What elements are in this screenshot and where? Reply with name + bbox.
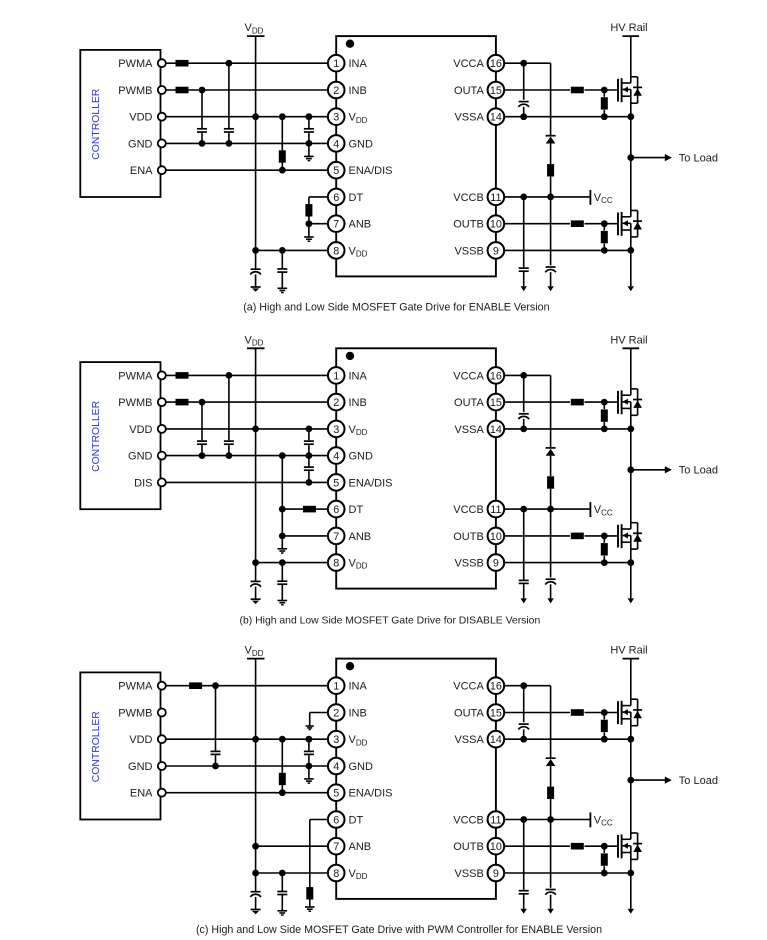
svg-text:11: 11 xyxy=(490,504,501,516)
wire OUTB pin 10 (b) xyxy=(505,533,618,540)
gate-driver IC U1 (a) xyxy=(336,36,496,276)
wire GND to pin 4 (b) xyxy=(166,452,327,459)
VDD rail vertical (c) xyxy=(252,659,259,877)
capacitor PWMA input filter (a) xyxy=(224,63,234,143)
svg-text:DT: DT xyxy=(349,814,364,826)
resistor OUTA gate-source (c) xyxy=(601,713,608,740)
capacitor VCCB bypass 2 (polarized) (a) xyxy=(545,197,556,286)
svg-text:3: 3 xyxy=(333,424,339,436)
bootstrap diode (c) xyxy=(546,686,556,787)
capacitor VDD bypass (c) xyxy=(304,739,314,766)
svg-text:9: 9 xyxy=(493,245,499,257)
svg-text:CONTROLLER: CONTROLLER xyxy=(91,88,102,160)
ground at INB (c) xyxy=(306,726,314,730)
svg-text:7: 7 xyxy=(333,219,339,231)
ground arrow below VCCB cap 2 (b) xyxy=(547,598,553,603)
gate-driver IC U1 (c) xyxy=(336,659,496,899)
resistor PWMA series (b) xyxy=(176,372,189,379)
svg-text:ENA/DIS: ENA/DIS xyxy=(349,165,393,177)
svg-text:OUTB: OUTB xyxy=(453,531,484,543)
svg-text:3: 3 xyxy=(333,734,339,746)
wire OUTB pin 10 (c) xyxy=(505,843,618,850)
controller pin ENA (a) xyxy=(130,165,166,177)
ground below VDD bulk cap (c) xyxy=(251,910,261,915)
IC pin 2 (b) xyxy=(328,394,367,411)
IC pin 10 (b) xyxy=(453,528,504,545)
svg-text:OUTA: OUTA xyxy=(454,85,484,97)
svg-text:15: 15 xyxy=(490,707,502,719)
HV Rail terminal (b) xyxy=(610,334,647,348)
svg-text:4: 4 xyxy=(333,138,339,150)
svg-text:DIS: DIS xyxy=(134,477,152,489)
wire DT pin 6 (c) xyxy=(310,820,328,888)
wire ENA to pin 5 (c) xyxy=(166,789,327,796)
resistor DT (b) xyxy=(303,506,316,513)
resistor OUTB gate-source (c) xyxy=(601,846,608,873)
IC pin 2 (a) xyxy=(328,82,367,99)
svg-text:DT: DT xyxy=(349,192,364,204)
wire PWMA to INA (a) xyxy=(166,60,327,67)
IC pin 11 (c) xyxy=(453,811,504,828)
controller pin GND (c) xyxy=(128,761,166,773)
svg-text:INB: INB xyxy=(349,707,367,719)
capacitor VDD decoupling (c) xyxy=(277,873,287,911)
VDD supply terminal (b) xyxy=(245,334,265,348)
controller pin VDD (a) xyxy=(129,112,166,124)
svg-text:VSSA: VSSA xyxy=(454,112,484,124)
svg-text:5: 5 xyxy=(333,165,339,177)
svg-text:ENA/DIS: ENA/DIS xyxy=(349,477,393,489)
gate-driver IC U1 (b) xyxy=(336,348,496,588)
controller label (a) xyxy=(91,88,102,160)
IC pin 7 (a) xyxy=(328,215,371,232)
ground arrow below VCCB cap 1 (b) xyxy=(521,598,527,603)
svg-text:VSSB: VSSB xyxy=(454,245,483,257)
svg-text:1: 1 xyxy=(333,681,339,693)
bootstrap diode (b) xyxy=(546,375,556,476)
ground below VDD bulk cap (a) xyxy=(251,287,261,292)
IC pin 14 (c) xyxy=(454,731,504,748)
ground arrow below VCCB cap 1 (c) xyxy=(521,909,527,914)
svg-text:10: 10 xyxy=(490,841,502,853)
wire VCCA pin 16 (a) xyxy=(505,60,551,67)
IC pin 4 (c) xyxy=(328,758,373,775)
ground arrow below output rail (a) xyxy=(628,286,634,291)
svg-text:2: 2 xyxy=(333,707,339,719)
resistor OUTB gate-source (b) xyxy=(601,536,608,563)
controller pin DIS (b) xyxy=(134,477,166,489)
wire ANB pin 7 (b) xyxy=(279,533,327,540)
wire VDD to pin 3 (a) xyxy=(166,113,327,120)
wire VDD pin 8 (b) xyxy=(256,559,328,566)
svg-text:ENA: ENA xyxy=(130,165,153,177)
wire GND to DT branch (b) xyxy=(279,456,286,536)
controller pin VDD (b) xyxy=(129,424,166,436)
bootstrap resistor (c) xyxy=(547,787,554,820)
ground below VDD decoupling cap (c) xyxy=(278,911,288,915)
IC pin 16 (b) xyxy=(453,367,504,384)
controller pin ENA (c) xyxy=(130,788,166,800)
svg-text:6: 6 xyxy=(333,504,339,516)
IC pin 15 (c) xyxy=(454,704,504,721)
svg-text:INB: INB xyxy=(349,397,367,409)
controller pin GND (a) xyxy=(128,138,166,150)
svg-text:16: 16 xyxy=(490,681,502,693)
svg-text:VDD: VDD xyxy=(129,112,152,124)
wire VDD pin 8 (a) xyxy=(256,247,328,254)
IC pin 16 (a) xyxy=(453,55,504,72)
svg-text:8: 8 xyxy=(333,245,339,257)
IC pin 8 (b) xyxy=(328,554,368,571)
svg-text:11: 11 xyxy=(490,192,501,204)
svg-text:GND: GND xyxy=(349,451,374,463)
svg-text:VCCB: VCCB xyxy=(453,192,484,204)
phase node wire (b) xyxy=(627,408,634,529)
wire GND to pin 4 (c) xyxy=(166,763,327,770)
capacitor VDD decoupling (a) xyxy=(277,250,287,288)
capacitor GND to DIS filter (b) xyxy=(304,456,314,483)
wire VCCB pin 11 (b) xyxy=(505,506,591,513)
IC pin 3 (b) xyxy=(328,421,368,438)
capacitor VCCB bypass 1 (a) xyxy=(519,197,529,286)
resistor PWMA series (a) xyxy=(176,60,189,67)
svg-text:16: 16 xyxy=(490,58,502,70)
svg-text:2: 2 xyxy=(333,85,339,97)
svg-text:(c) High and Low Side MOSFET G: (c) High and Low Side MOSFET Gate Drive … xyxy=(196,924,602,936)
svg-text:16: 16 xyxy=(490,370,502,382)
wire GND to pin 4 (a) xyxy=(166,140,327,147)
wire VDD pin 8 (c) xyxy=(256,870,328,877)
VDD rail vertical (b) xyxy=(252,348,259,566)
wire VDD to pin 3 (c) xyxy=(166,736,327,743)
svg-text:GND: GND xyxy=(128,761,153,773)
svg-text:OUTA: OUTA xyxy=(454,707,484,719)
ground below VDD bulk cap (b) xyxy=(251,599,261,604)
svg-text:4: 4 xyxy=(333,451,339,463)
svg-text:ANB: ANB xyxy=(349,531,372,543)
IC pin 10 (a) xyxy=(453,215,504,232)
wire PWMB to INB (a) xyxy=(166,87,327,94)
svg-text:3: 3 xyxy=(333,112,339,124)
IC pin 11 (a) xyxy=(453,189,504,206)
resistor OUTB gate (a) xyxy=(571,220,584,227)
IC pin 1 (a) xyxy=(328,55,368,72)
VDD supply terminal (c) xyxy=(245,645,265,659)
IC pin 4 (b) xyxy=(328,447,373,464)
controller pin GND (b) xyxy=(128,451,166,463)
resistor ENA pull-up (a) xyxy=(279,117,286,171)
VCC terminal (b) xyxy=(590,502,613,517)
wire OUTA pin 15 (a) xyxy=(505,87,618,94)
HV rail wire (a) xyxy=(630,36,632,83)
capacitor PWMA input filter (b) xyxy=(224,375,234,455)
bootstrap resistor (a) xyxy=(547,164,554,197)
svg-text:6: 6 xyxy=(333,814,339,826)
wire OUTB pin 10 (a) xyxy=(505,220,618,227)
wire VCCB pin 11 (c) xyxy=(505,816,591,823)
wire VSSA pin 14 (c) xyxy=(505,736,634,743)
controller pin PWMA (a) xyxy=(118,58,166,70)
svg-text:15: 15 xyxy=(490,85,502,97)
ground arrow below VCCB cap 2 (c) xyxy=(547,909,553,914)
svg-text:VSSA: VSSA xyxy=(454,424,484,436)
To Load label (a) xyxy=(679,153,718,165)
resistor ENA pull-up (c) xyxy=(279,739,286,793)
high-side MOSFET (c) xyxy=(618,699,642,726)
controller pin VDD (c) xyxy=(129,734,166,746)
low-side MOSFET (a) xyxy=(618,211,642,237)
IC pin 5 (b) xyxy=(328,474,393,491)
low-side source wire (b) xyxy=(630,542,632,598)
IC pin 5 (c) xyxy=(328,784,393,801)
ground at ANB branch (b) xyxy=(278,536,288,553)
IC pin 9 (c) xyxy=(454,865,504,882)
svg-text:INA: INA xyxy=(349,370,368,382)
svg-text:4: 4 xyxy=(333,761,339,773)
capacitor VCCB bypass 2 (polarized) (b) xyxy=(545,509,556,598)
svg-text:To Load: To Load xyxy=(679,153,718,165)
svg-text:CONTROLLER: CONTROLLER xyxy=(91,711,102,783)
capacitor VCCA bootstrap (polarized) (c) xyxy=(518,686,529,743)
wire PWMA to INA (c) xyxy=(166,682,327,689)
svg-text:1: 1 xyxy=(333,370,339,382)
IC pin 3 (a) xyxy=(328,108,368,125)
VDD supply terminal (a) xyxy=(245,22,265,36)
phase node wire (a) xyxy=(627,96,634,217)
svg-text:5: 5 xyxy=(333,788,339,800)
svg-text:OUTB: OUTB xyxy=(453,841,484,853)
svg-text:OUTA: OUTA xyxy=(454,397,484,409)
VCC terminal (c) xyxy=(590,812,613,827)
capacitor VDD bulk (polarized) (a) xyxy=(250,250,261,287)
controller pin PWMA (b) xyxy=(118,370,166,382)
IC pin-1 orientation dot (b) xyxy=(346,352,354,360)
svg-text:OUTB: OUTB xyxy=(453,219,484,231)
wire to load (b) xyxy=(631,466,672,473)
svg-text:GND: GND xyxy=(128,138,153,150)
svg-text:VCCA: VCCA xyxy=(453,370,484,382)
controller box (a) xyxy=(80,50,160,197)
svg-text:INA: INA xyxy=(349,58,368,70)
svg-text:VSSA: VSSA xyxy=(454,734,484,746)
wire DT pin 6 (a) xyxy=(309,197,327,204)
VDD rail vertical (a) xyxy=(252,36,259,254)
capacitor PWMB input filter (a) xyxy=(197,90,207,143)
resistor OUTB gate-source (a) xyxy=(601,224,608,251)
svg-text:DT: DT xyxy=(349,504,364,516)
controller pin PWMA (c) xyxy=(118,681,166,693)
svg-text:CONTROLLER: CONTROLLER xyxy=(91,400,102,472)
IC pin 3 (c) xyxy=(328,731,368,748)
svg-text:HV Rail: HV Rail xyxy=(610,334,647,346)
svg-text:GND: GND xyxy=(349,138,374,150)
svg-text:5: 5 xyxy=(333,477,339,489)
IC pin 8 (a) xyxy=(328,242,368,259)
svg-text:10: 10 xyxy=(490,219,502,231)
svg-text:15: 15 xyxy=(490,397,502,409)
wire VSSA pin 14 (b) xyxy=(505,426,634,433)
capacitor PWMA input filter (c) xyxy=(211,686,221,766)
bootstrap diode (a) xyxy=(546,63,556,164)
svg-text:PWMB: PWMB xyxy=(118,85,152,97)
capacitor VDD decoupling (b) xyxy=(277,563,287,601)
svg-text:7: 7 xyxy=(333,841,339,853)
svg-text:VSSB: VSSB xyxy=(454,558,483,570)
wire OUTA pin 15 (c) xyxy=(505,709,618,716)
wire INB ground hook (c) xyxy=(310,713,328,726)
IC pin 5 (a) xyxy=(328,162,393,179)
svg-text:To Load: To Load xyxy=(679,465,718,477)
capacitor VCCA bootstrap (polarized) (a) xyxy=(518,63,529,120)
capacitor VDD bulk (polarized) (b) xyxy=(250,563,261,600)
ground arrow below VCCB cap 2 (a) xyxy=(547,286,553,291)
svg-text:GND: GND xyxy=(349,761,374,773)
high-side MOSFET (a) xyxy=(618,77,642,103)
HV rail wire (c) xyxy=(630,659,632,706)
wire VSSA pin 14 (a) xyxy=(505,113,634,120)
low-side MOSFET (c) xyxy=(618,833,642,859)
controller label (b) xyxy=(91,400,102,472)
svg-text:9: 9 xyxy=(493,868,499,880)
HV Rail terminal (a) xyxy=(610,22,647,36)
resistor PWMA series (c) xyxy=(189,682,202,689)
wire VSSB pin 9 (c) xyxy=(505,870,634,877)
svg-text:VSSB: VSSB xyxy=(454,868,483,880)
svg-text:VCCB: VCCB xyxy=(453,504,484,516)
IC pin 2 (c) xyxy=(328,704,367,721)
capacitor PWMB input filter (b) xyxy=(197,402,207,456)
wire DIS to pin 5 (b) xyxy=(166,479,327,486)
phase node wire (c) xyxy=(627,719,634,840)
svg-text:PWMA: PWMA xyxy=(118,681,153,693)
wire ANB pin 7 (a) xyxy=(306,220,328,227)
ground arrow below output rail (b) xyxy=(628,598,634,603)
svg-text:14: 14 xyxy=(490,424,502,436)
svg-text:PWMB: PWMB xyxy=(118,397,152,409)
wire VCCA pin 16 (c) xyxy=(505,682,551,689)
IC pin 6 (c) xyxy=(328,811,364,828)
svg-text:8: 8 xyxy=(333,558,339,570)
ground below VDD decoupling cap (b) xyxy=(278,601,288,605)
IC pin 10 (c) xyxy=(453,838,504,855)
controller pin PWMB (c) xyxy=(118,707,166,719)
capacitor VCCA bootstrap (polarized) (b) xyxy=(518,375,529,432)
svg-text:GND: GND xyxy=(128,451,153,463)
wire PWMA to INA (b) xyxy=(166,372,327,379)
HV rail wire (b) xyxy=(630,348,632,395)
controller box (c) xyxy=(80,672,160,819)
svg-text:PWMA: PWMA xyxy=(118,58,153,70)
low-side MOSFET (b) xyxy=(618,523,642,549)
resistor OUTA gate (a) xyxy=(571,87,584,94)
To Load label (c) xyxy=(679,775,718,787)
svg-text:PWMB: PWMB xyxy=(118,707,152,719)
IC pin 8 (c) xyxy=(328,865,368,882)
ground below DT resistor (c) xyxy=(305,907,315,911)
svg-text:14: 14 xyxy=(490,112,502,124)
capacitor VDD bypass (a) xyxy=(304,117,314,144)
IC pin 1 (c) xyxy=(328,677,368,694)
svg-text:VDD: VDD xyxy=(129,424,152,436)
svg-text:HV Rail: HV Rail xyxy=(610,22,647,34)
ground below VDD bypass (c) xyxy=(304,766,314,783)
IC pin 9 (a) xyxy=(454,242,504,259)
svg-text:INB: INB xyxy=(349,85,367,97)
svg-text:INA: INA xyxy=(349,681,368,693)
wire ANB pin 7 to VDD rail (c) xyxy=(256,845,328,847)
wire OUTA pin 15 (b) xyxy=(505,399,618,406)
ground below VDD bypass (a) xyxy=(304,143,314,160)
wire VDD to pin 3 (b) xyxy=(166,426,327,433)
wire to load (a) xyxy=(631,154,672,161)
IC pin 15 (b) xyxy=(454,394,504,411)
svg-text:14: 14 xyxy=(490,734,502,746)
resistor PWMB series (a) xyxy=(176,87,189,94)
wire VCCA pin 16 (b) xyxy=(505,372,551,379)
capacitor VCCB bypass 1 (c) xyxy=(519,820,529,909)
svg-text:VDD: VDD xyxy=(129,734,152,746)
IC pin 11 (b) xyxy=(453,501,504,518)
svg-text:(a) High and Low Side MOSFET G: (a) High and Low Side MOSFET Gate Drive … xyxy=(243,302,549,314)
wire ENA to pin 5 (a) xyxy=(166,167,327,174)
svg-text:To Load: To Load xyxy=(679,775,718,787)
low-side source wire (a) xyxy=(630,230,632,286)
controller label (c) xyxy=(91,711,102,783)
resistor PWMB series (b) xyxy=(176,399,189,406)
svg-text:11: 11 xyxy=(490,814,501,826)
ground at ANB (a) xyxy=(304,224,314,242)
controller pin PWMB (a) xyxy=(118,85,166,97)
capacitor VCCB bypass 2 (polarized) (c) xyxy=(545,820,556,909)
IC pin 7 (c) xyxy=(328,838,371,855)
controller pin PWMB (b) xyxy=(118,397,166,409)
ground below VDD decoupling cap (a) xyxy=(278,288,288,292)
resistor OUTA gate-source (b) xyxy=(601,402,608,429)
ground arrow below output rail (c) xyxy=(628,909,634,914)
capacitor VCCB bypass 1 (b) xyxy=(519,509,529,598)
svg-text:ANB: ANB xyxy=(349,841,372,853)
VCC terminal (a) xyxy=(590,190,613,205)
IC pin 14 (a) xyxy=(454,108,504,125)
IC pin 15 (a) xyxy=(454,82,504,99)
wire VSSB pin 9 (b) xyxy=(505,559,634,566)
wire VCCB pin 11 (a) xyxy=(505,194,591,201)
capacitor VDD bypass (b) xyxy=(304,429,314,456)
HV Rail terminal (c) xyxy=(610,645,647,659)
svg-text:VCCB: VCCB xyxy=(453,814,484,826)
IC pin-1 orientation dot (a) xyxy=(346,40,354,48)
wire VSSB pin 9 (a) xyxy=(505,247,634,254)
svg-text:HV Rail: HV Rail xyxy=(610,645,647,657)
resistor OUTA gate (c) xyxy=(571,709,584,716)
svg-text:VCCA: VCCA xyxy=(453,681,484,693)
resistor OUTB gate (b) xyxy=(571,533,584,540)
IC pin 14 (b) xyxy=(454,421,504,438)
IC pin 16 (c) xyxy=(453,677,504,694)
capacitor VDD bulk (polarized) (c) xyxy=(250,873,261,910)
IC pin 7 (b) xyxy=(328,528,371,545)
svg-text:6: 6 xyxy=(333,192,339,204)
resistor DT (a) xyxy=(305,204,312,224)
svg-text:(b) High and Low Side MOSFET G: (b) High and Low Side MOSFET Gate Drive … xyxy=(240,615,541,626)
svg-text:9: 9 xyxy=(493,558,499,570)
svg-text:2: 2 xyxy=(333,397,339,409)
svg-text:ENA/DIS: ENA/DIS xyxy=(349,788,393,800)
IC pin 4 (a) xyxy=(328,135,373,152)
resistor DT to ground (c) xyxy=(306,887,313,907)
svg-text:8: 8 xyxy=(333,868,339,880)
bootstrap resistor (b) xyxy=(547,476,554,509)
